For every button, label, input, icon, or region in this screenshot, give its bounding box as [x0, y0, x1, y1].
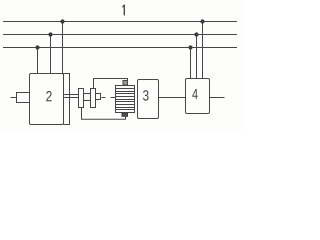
junction dot L3 left: [35, 45, 39, 49]
bus line L2: [3, 34, 237, 36]
junction dot L1 left: [60, 19, 64, 23]
machine bottom terminal: [122, 113, 128, 116]
wire drop left to block2 from L3: [37, 48, 39, 74]
shaft dash 2: [111, 97, 116, 99]
coupling sleeve: [84, 94, 91, 101]
wire stub left input: [11, 97, 17, 99]
junction dot L2 right: [194, 32, 198, 36]
shaft dash 1: [102, 97, 106, 99]
wire drop right to block4 from L3: [190, 48, 192, 79]
block 2: [30, 74, 64, 125]
wire block3 to block4: [159, 97, 186, 99]
label 4: [192, 89, 197, 99]
junction dot L2 left: [48, 32, 52, 36]
bus line L3: [3, 47, 237, 49]
shaft stub box: [96, 94, 101, 100]
label 2: [46, 91, 52, 101]
machine body: [116, 86, 135, 113]
block 4: [186, 79, 210, 114]
wire machine bottom to flange A bottom: [82, 108, 126, 120]
connector box on block2 left: [17, 93, 30, 103]
coupling flange A: [79, 89, 84, 108]
wire drop left to block2 from L2: [50, 35, 52, 74]
bus line L1: [3, 21, 237, 23]
machine top terminal: [123, 81, 128, 86]
block 3: [138, 80, 159, 119]
shaft double line: [64, 95, 79, 98]
wire drop from L1 jog around block2 right side: [63, 22, 70, 125]
junction dot L1 right: [200, 19, 204, 23]
label 3: [143, 90, 149, 101]
coupling flange B: [91, 89, 96, 108]
wire block4 output: [210, 97, 225, 99]
machine laminations: [116, 89, 135, 110]
wire drop right to block4 from L1: [202, 22, 204, 79]
label 1: [123, 5, 125, 16]
wire machine top to flange B top: [94, 79, 128, 89]
wire drop right to block4 from L2: [196, 35, 198, 79]
junction dot L3 right: [188, 45, 192, 49]
